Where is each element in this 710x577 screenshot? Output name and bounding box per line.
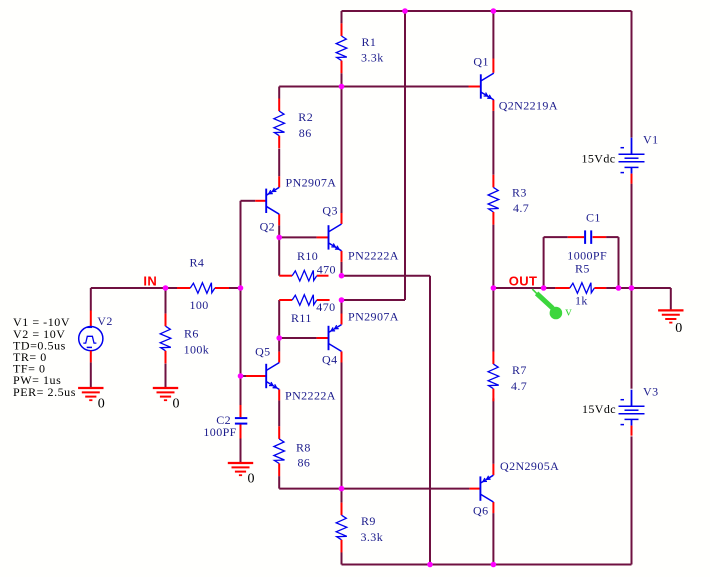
transistor Q3 bbox=[329, 224, 342, 251]
wire R3 to OUT bbox=[492, 225, 494, 288]
svg-text:R6: R6 bbox=[184, 326, 199, 340]
wire C1 right top bbox=[606, 236, 618, 238]
wire R11 left leg bbox=[278, 300, 280, 338]
resistor R8 bbox=[274, 426, 285, 476]
wire R6 bottom leg bbox=[165, 364, 167, 388]
resistor R5 bbox=[555, 283, 606, 294]
wire Q4 base run bbox=[279, 337, 316, 339]
node R5 right bbox=[616, 285, 622, 291]
wire R6 top leg bbox=[165, 288, 167, 314]
wire R4 to node bbox=[229, 287, 241, 289]
svg-text:R8: R8 bbox=[296, 440, 311, 454]
wire R9 bottom leg bbox=[341, 552, 343, 564]
wire V1 top leg bbox=[631, 11, 633, 138]
voltage source V3 bbox=[619, 390, 645, 436]
node bottom rail E bbox=[427, 562, 433, 568]
transistor Q1 pins bbox=[469, 59, 494, 111]
wire C1 left top bbox=[544, 236, 568, 238]
capacitor C2 bbox=[235, 405, 247, 439]
wire R5 right run bbox=[606, 287, 671, 289]
transistor Q4 pins bbox=[317, 314, 342, 363]
svg-text:R2: R2 bbox=[298, 110, 313, 124]
wire OUT run bbox=[493, 287, 555, 289]
svg-text:Q4: Q4 bbox=[322, 352, 337, 366]
svg-text:PER= 2.5us: PER= 2.5us bbox=[13, 385, 76, 399]
wire top rail bbox=[342, 10, 632, 12]
node R10 right bbox=[339, 273, 345, 279]
wire Q2 base vertical bbox=[240, 201, 242, 288]
svg-text:R3: R3 bbox=[512, 185, 527, 199]
node OUT bbox=[491, 285, 497, 291]
svg-text:1000PF: 1000PF bbox=[567, 248, 607, 262]
wire R2 top leg bbox=[278, 87, 280, 99]
svg-text:100PF: 100PF bbox=[203, 425, 236, 439]
node top rail B bbox=[402, 8, 408, 14]
svg-text:Q5: Q5 bbox=[255, 344, 270, 358]
node R4 right bbox=[238, 285, 244, 291]
wire V1 bottom leg bbox=[631, 184, 633, 288]
resistor R6 bbox=[160, 314, 171, 364]
wire R1 top stub bbox=[341, 11, 343, 23]
svg-text:0: 0 bbox=[248, 471, 255, 486]
svg-text:v: v bbox=[565, 303, 572, 318]
svg-text:Q1: Q1 bbox=[473, 54, 488, 68]
svg-text:R1: R1 bbox=[362, 35, 377, 49]
node IN bbox=[163, 285, 169, 291]
svg-text:4.7: 4.7 bbox=[511, 379, 527, 393]
svg-text:R11: R11 bbox=[291, 311, 312, 325]
transistor Q5 bbox=[266, 363, 279, 390]
wire Q6 base run bbox=[279, 488, 469, 490]
svg-text:Q6: Q6 bbox=[473, 503, 488, 517]
svg-text:86: 86 bbox=[298, 455, 311, 469]
svg-text:Q2: Q2 bbox=[260, 219, 275, 233]
node R9 top bbox=[339, 486, 345, 492]
svg-text:V2: V2 bbox=[97, 314, 112, 328]
wire Q3 emitter to node bbox=[341, 262, 343, 276]
wire R2 to Q2 emitter bbox=[278, 149, 280, 177]
wire Q4 emitter stub bbox=[341, 300, 343, 314]
resistor R10 bbox=[279, 270, 328, 281]
svg-text:PN2907A: PN2907A bbox=[286, 175, 337, 189]
wire R2 top run bbox=[279, 86, 341, 88]
wire V2 to IN bbox=[91, 287, 166, 289]
svg-text:Q2N2219A: Q2N2219A bbox=[499, 98, 558, 112]
svg-text:15Vdc: 15Vdc bbox=[582, 402, 616, 416]
svg-text:3.3k: 3.3k bbox=[361, 50, 384, 64]
voltage probe at OUT bbox=[532, 289, 562, 319]
node R1 bottom bbox=[339, 84, 345, 90]
svg-text:0: 0 bbox=[675, 321, 682, 336]
svg-text:86: 86 bbox=[299, 126, 312, 140]
wire C2 top leg bbox=[240, 376, 242, 405]
wire C1 left leg bbox=[543, 237, 545, 288]
svg-text:PN2907A: PN2907A bbox=[348, 309, 399, 323]
transistor Q4 bbox=[329, 325, 342, 352]
svg-text:OUT: OUT bbox=[509, 274, 538, 289]
node R5 left bbox=[541, 285, 547, 291]
wire bottom rail bbox=[342, 564, 632, 566]
svg-text:470: 470 bbox=[317, 262, 336, 276]
resistor R7 bbox=[488, 352, 499, 402]
wire Q5 base stub bbox=[241, 375, 247, 377]
svg-text:R9: R9 bbox=[361, 514, 376, 528]
svg-text:IN: IN bbox=[143, 274, 157, 289]
svg-text:R5: R5 bbox=[575, 261, 590, 275]
transistor Q3 pins bbox=[317, 213, 342, 262]
resistor R2 bbox=[274, 99, 285, 149]
wire right drop from R10 node bbox=[429, 276, 431, 565]
svg-text:3.3k: 3.3k bbox=[361, 530, 384, 544]
wire Q2 base horizontal bbox=[241, 200, 256, 202]
svg-text:4.7: 4.7 bbox=[513, 201, 529, 215]
wire OUT to R7 bbox=[492, 288, 494, 352]
wire R10 left leg bbox=[278, 237, 280, 275]
resistor R1 bbox=[336, 23, 347, 73]
voltage source V2 bbox=[79, 311, 103, 363]
svg-text:0: 0 bbox=[173, 396, 180, 411]
svg-text:C1: C1 bbox=[586, 210, 601, 224]
node Q4 base bbox=[276, 335, 282, 341]
wire Q4 collector run bbox=[341, 363, 343, 489]
ground C2 bbox=[228, 463, 253, 475]
svg-text:PN2222A: PN2222A bbox=[348, 248, 399, 262]
svg-text:R4: R4 bbox=[190, 255, 205, 269]
svg-text:V1: V1 bbox=[643, 132, 658, 146]
transistor Q5 pins bbox=[246, 352, 279, 401]
wire R7 to Q6 emitter bbox=[492, 398, 494, 464]
wire V2 bottom leg bbox=[90, 362, 92, 388]
wire Q2 collector to node bbox=[278, 225, 280, 237]
wire R1 bottom to node bbox=[341, 73, 343, 86]
ground R6 bbox=[153, 388, 178, 400]
transistor Q6 pins bbox=[469, 464, 493, 513]
wire R10 node to right bbox=[342, 275, 431, 277]
node V trunk mid bbox=[629, 285, 635, 291]
wire right ground stem bbox=[670, 288, 672, 310]
transistor Q1 bbox=[481, 73, 494, 100]
voltage source V1 bbox=[619, 138, 645, 184]
wire rail B to R11 node bbox=[342, 299, 406, 301]
wire Q5 base node leg bbox=[240, 288, 242, 376]
svg-text:Q3: Q3 bbox=[322, 203, 337, 217]
wire Q6 collector to rail bbox=[492, 513, 494, 564]
wire Q3 collector run bbox=[341, 87, 343, 214]
wire R8 bottom leg bbox=[278, 476, 280, 489]
wire Q5 collector stub bbox=[278, 338, 280, 352]
svg-text:15Vdc: 15Vdc bbox=[582, 151, 616, 165]
wire rail B vertical bbox=[404, 11, 406, 300]
wire IN to R4 bbox=[166, 287, 178, 289]
wire C2 bottom leg bbox=[240, 439, 242, 463]
wire Q5 emitter to R8 bbox=[278, 400, 280, 426]
transistor Q6 bbox=[480, 475, 493, 502]
wire R9 top leg bbox=[341, 489, 343, 503]
svg-text:R10: R10 bbox=[297, 249, 318, 263]
node Q2 collector bbox=[276, 235, 282, 241]
resistor R9 bbox=[336, 503, 347, 553]
svg-text:100k: 100k bbox=[184, 342, 210, 356]
resistor R11 bbox=[279, 295, 329, 306]
svg-text:R7: R7 bbox=[512, 363, 527, 377]
svg-text:1k: 1k bbox=[575, 293, 588, 307]
node bottom rail C bbox=[491, 562, 497, 568]
resistor R4 bbox=[177, 283, 229, 294]
svg-text:Q2N2905A: Q2N2905A bbox=[500, 459, 559, 473]
wire base line Q1 bbox=[342, 86, 469, 88]
ground OUT right bbox=[658, 310, 683, 322]
node top rail C bbox=[491, 8, 497, 14]
node Q5 base bbox=[238, 373, 244, 379]
transistor Q2 bbox=[266, 187, 279, 214]
svg-text:V3: V3 bbox=[643, 384, 658, 398]
ground V2 bbox=[78, 388, 103, 400]
svg-text:0: 0 bbox=[98, 396, 105, 411]
wire Q3 base run bbox=[279, 236, 316, 238]
wire Q1 collector stub bbox=[492, 11, 494, 59]
svg-text:470: 470 bbox=[316, 300, 335, 314]
wire V3 top leg bbox=[631, 288, 633, 389]
node R11 right bbox=[339, 297, 345, 303]
svg-text:PN2222A: PN2222A bbox=[285, 388, 336, 402]
capacitor C1 bbox=[568, 230, 606, 244]
resistor R3 bbox=[488, 175, 499, 225]
wire V2 top leg bbox=[90, 288, 92, 311]
wire Q1 emitter to R3 bbox=[492, 111, 494, 175]
wire V3 bottom leg bbox=[631, 436, 633, 564]
wire C1 right leg bbox=[618, 237, 620, 288]
transistor Q2 pins bbox=[255, 176, 279, 225]
svg-text:100: 100 bbox=[190, 298, 209, 312]
